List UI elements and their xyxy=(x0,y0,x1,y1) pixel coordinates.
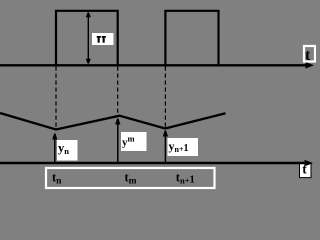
svg-text:t: t xyxy=(305,47,311,64)
